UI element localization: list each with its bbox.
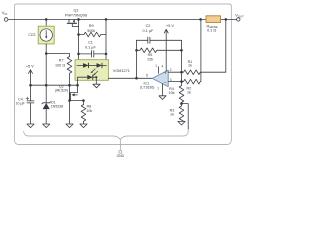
svg-text:1N5338: 1N5338	[51, 105, 64, 109]
ground arrow under D1	[43, 124, 50, 128]
node: junction R5/C2 right	[180, 49, 183, 52]
node: junction R4/R3	[180, 102, 183, 105]
ground arrow under Q2	[66, 124, 73, 128]
svg-text:(LT1636): (LT1636)	[140, 86, 154, 90]
ground arrow under VOM1271	[93, 84, 100, 88]
dashed outline frame of circuit box	[15, 4, 232, 145]
svg-text:1: 1	[155, 64, 157, 68]
svg-text:3: 3	[170, 78, 172, 82]
node: junction R8 top	[82, 99, 85, 102]
svg-text:1k: 1k	[188, 64, 192, 68]
wire: +5V stem to op-amp pin 4	[165, 29, 167, 71]
svg-text:VOUT: VOUT	[235, 12, 244, 18]
svg-text:VIN: VIN	[2, 10, 7, 16]
svg-text:+: +	[164, 71, 167, 76]
svg-text:1k: 1k	[187, 91, 191, 95]
wire: ground reference tap to GND brace	[182, 104, 189, 130]
resistor R1 1k	[182, 19, 226, 74]
node: junction R9 left	[77, 33, 80, 36]
diode internal D-a	[83, 63, 89, 68]
node: junction at Rsense right	[225, 18, 228, 21]
resistor R3 1k	[179, 104, 184, 123]
svg-text:0.1 µF: 0.1 µF	[85, 45, 97, 49]
svg-text:C1: C1	[88, 41, 93, 45]
svg-text:+5 V: +5 V	[26, 65, 34, 69]
wire: +5V rail horizontal	[31, 84, 78, 86]
node: junction R7 bottom	[68, 84, 71, 87]
svg-text:GND: GND	[117, 154, 125, 158]
node: junction Q2 source	[68, 99, 71, 102]
resistor R4 10k	[179, 82, 184, 104]
wire: R9/C1 right rail	[105, 19, 107, 59]
power +5V arrow left	[30, 70, 32, 85]
node: junction at CCS tap	[45, 18, 48, 21]
resistor R7 100 Ohm	[67, 57, 72, 86]
terminal Vin	[4, 18, 8, 22]
svg-text:8: 8	[146, 73, 148, 77]
ground arrow under op-amp	[159, 96, 166, 100]
svg-text:10k: 10k	[86, 109, 92, 113]
wire: op-amp pin 2 stub to R1 row	[168, 71, 181, 73]
op-amp IC1 LT1636	[152, 70, 168, 86]
wire: gate/R9/C1 left rail	[78, 19, 80, 59]
GND brace	[24, 129, 189, 139]
wire: op-amp top stub pin 1	[158, 67, 160, 74]
svg-text:7: 7	[157, 87, 159, 91]
optocoupler U2 VOM1271 box	[75, 60, 108, 81]
svg-text:D1: D1	[51, 100, 56, 104]
wire: to R7 top	[46, 54, 69, 57]
ground arrow under R8	[80, 124, 87, 128]
svg-text:R7: R7	[59, 59, 64, 63]
node: junction at Q1 gate rail	[77, 18, 80, 21]
node: junction C1 right	[105, 53, 108, 56]
svg-text:4: 4	[162, 64, 164, 68]
ground arrow under C4	[27, 124, 34, 128]
node: junction output/feedback rail	[135, 77, 138, 80]
ground arrow under R3	[178, 121, 185, 125]
resistor R9 900k	[79, 32, 107, 37]
svg-text:R9: R9	[89, 24, 94, 28]
transistor Q1 PHP79NQ08	[67, 19, 78, 26]
svg-text:VOM1271: VOM1271	[113, 69, 130, 73]
node: junction Q2 drain riser	[76, 84, 79, 87]
resistor Rsense 0.1 Ohm box	[206, 16, 221, 23]
wire: op-amp pin 3 stub to R2 row	[168, 81, 181, 83]
svg-text:22k: 22k	[147, 57, 153, 61]
node: junction R5 row left	[135, 49, 138, 52]
wire: Q2 source to R8	[70, 101, 84, 105]
node: junction D1	[45, 84, 48, 87]
svg-text:10k: 10k	[169, 91, 175, 95]
wire: GND stem	[119, 139, 121, 150]
capacitor C1 0.1uF	[79, 51, 107, 57]
svg-text:100 Ω: 100 Ω	[55, 63, 65, 67]
svg-text:−: −	[164, 81, 167, 86]
wire: feedback rail left of op-amp	[136, 40, 138, 78]
node: junction R1 row	[180, 71, 183, 74]
node: junction C1 left	[77, 53, 80, 56]
light arrows inside VOM1271	[91, 69, 98, 75]
wire: op-amp V- pin 7 to ground	[162, 84, 164, 96]
svg-text:10 µF: 10 µF	[15, 101, 25, 105]
wire: CCS bottom to junction	[45, 44, 47, 85]
svg-text:0.1 Ω: 0.1 Ω	[207, 29, 216, 33]
transistor Q2 IRL520	[70, 80, 78, 100]
node: junction CCS/R7	[45, 52, 48, 55]
wire: C2/R5 right rail down to R1 row	[181, 40, 183, 81]
svg-text:C2: C2	[146, 24, 151, 28]
diode internal D-c	[87, 75, 93, 80]
node: junction at VOM bottom pin	[95, 76, 97, 78]
svg-text:1k: 1k	[170, 113, 174, 117]
node: junction +5V/C4	[29, 84, 32, 87]
wire: internal bottom diode line	[78, 77, 97, 80]
node: junction at R9/C1 right rail	[105, 18, 108, 21]
wire: internal top diode series line	[77, 64, 107, 66]
node: junction at Rsense left	[199, 18, 202, 21]
wire: VOM ground pin	[95, 77, 97, 84]
svg-text:(IRL520): (IRL520)	[55, 89, 68, 93]
svg-text:CCS: CCS	[28, 33, 36, 37]
wire: VOM output to op-amp	[108, 77, 152, 79]
svg-text:900k: 900k	[87, 29, 95, 33]
terminal Vout	[237, 18, 240, 21]
constant-current source CCS box	[38, 26, 54, 44]
capacitor C4 10uF	[26, 85, 34, 124]
resistor R8 10k	[81, 105, 86, 125]
capacitor C2 0.1uF	[137, 37, 182, 43]
svg-text:Q1: Q1	[73, 8, 78, 12]
node: junction R2 row	[180, 80, 183, 83]
svg-text:PHP79NQ08: PHP79NQ08	[65, 13, 87, 17]
zener diode D1 1N5338	[42, 85, 51, 124]
terminal GND	[119, 150, 122, 153]
wire: main top rail Vin to Vout	[8, 18, 237, 20]
svg-text:2: 2	[170, 68, 172, 72]
diode internal D-b	[97, 63, 103, 68]
svg-text:+5 V: +5 V	[166, 24, 174, 28]
wire: CCS tap vertical	[45, 19, 47, 28]
wire: Q2 source/ground rail	[69, 85, 71, 124]
resistor R2 1k	[182, 19, 201, 83]
svg-text:0.1 µF: 0.1 µF	[142, 29, 154, 33]
resistor R5 22k	[137, 48, 182, 53]
